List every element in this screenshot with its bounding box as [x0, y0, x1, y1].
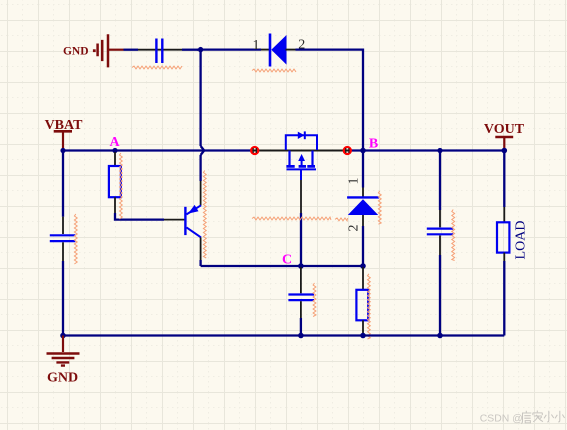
wire top rail from diode to right corner [296, 48, 364, 50]
junction at node A [112, 148, 117, 153]
capacitor (below node C) [288, 267, 314, 336]
junction at node C [298, 263, 304, 269]
wire top rail from node to diode [197, 48, 261, 50]
svg-text:GND: GND [63, 46, 89, 58]
svg-text:1: 1 [253, 38, 260, 53]
diode D (top), cathode left, pins 1-2 [261, 34, 296, 67]
watermark CSDN [480, 411, 565, 425]
junction bottom cap C [298, 333, 304, 339]
svg-text:B: B [369, 137, 378, 152]
capacitor (output, x=440) [427, 151, 453, 336]
error squiggle right of bottom resistor [368, 274, 371, 339]
resistor (below zener, to ground rail) [356, 267, 368, 336]
error squiggle right of left capacitor [74, 214, 77, 264]
svg-text:VOUT: VOUT [484, 122, 525, 137]
error squiggle left of zener [335, 218, 348, 221]
wire VBAT vertical down left side [62, 151, 64, 217]
output branch: junction on mid rail [437, 148, 442, 153]
error squiggle under diode [252, 69, 296, 72]
zener diode (node B down) [347, 151, 379, 267]
error squiggle right of output capacitor [452, 210, 455, 261]
pin marker (red ring, left MOSFET pin) [251, 147, 258, 154]
wire from top right corner down to node B [362, 49, 364, 151]
error squiggle right of emitter/collector wire [203, 171, 206, 259]
MOSFET (P-channel with body diode) [286, 131, 317, 180]
svg-text:2: 2 [298, 38, 305, 53]
junction at VOUT [502, 148, 508, 154]
node C rail [201, 265, 363, 267]
junction at top node [198, 47, 203, 52]
svg-text:A: A [109, 135, 120, 150]
power port VOUT [484, 122, 525, 151]
junction bottom left [60, 333, 66, 339]
capacitor (top, between GND port and node) [124, 39, 199, 64]
junction at node B [360, 148, 366, 154]
transistor Q (PNP) [185, 181, 201, 266]
error squiggle right of zener [378, 191, 381, 224]
power port VBAT [45, 118, 84, 151]
junction VBAT [60, 148, 65, 153]
svg-text:2: 2 [347, 225, 362, 232]
error squiggle under top capacitor [132, 66, 182, 69]
resistor (node A to transistor base) [109, 152, 185, 220]
svg-text:GND: GND [47, 371, 78, 386]
junction zener bottom [360, 263, 366, 269]
power port GND (top left) [63, 34, 124, 67]
bottom ground rail [63, 334, 504, 336]
junction bottom output cap [437, 333, 443, 339]
ground symbol GND (bottom) [47, 336, 80, 386]
MOSFET gate pin wire down to node C [300, 180, 302, 266]
error squiggle horizontal near gate [252, 217, 331, 220]
pin marker (red ring, right MOSFET pin) [344, 147, 351, 154]
resistor LOAD [497, 151, 528, 336]
main mid rail (VBAT line) [63, 149, 504, 151]
svg-text:1: 1 [347, 178, 362, 185]
wire from top node down to emitter (with hop over mid rail) [201, 51, 205, 181]
error squiggle right of resistor [120, 153, 123, 219]
error squiggle right of capacitor below C [313, 283, 316, 317]
svg-text:LOAD: LOAD [513, 221, 528, 260]
junction bottom resistor [360, 333, 366, 339]
svg-text:CSDN @: CSDN @ [480, 414, 523, 425]
svg-text:C: C [282, 253, 292, 268]
capacitor (left, input) [50, 217, 76, 336]
